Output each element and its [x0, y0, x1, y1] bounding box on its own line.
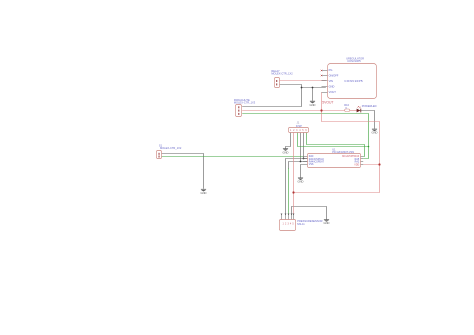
svg-text:123456: 123456 — [290, 130, 308, 132]
svg-text:CONV10P5: CONV10P5 — [344, 79, 363, 83]
svg-text:GND: GND — [372, 131, 378, 135]
svg-text:1k: 1k — [345, 107, 347, 109]
svg-text:5VOUT: 5VOUT — [322, 100, 333, 104]
svg-text:GND: GND — [324, 221, 330, 225]
svg-text:PIC12F1840T-I/SN: PIC12F1840T-I/SN — [332, 150, 354, 154]
svg-text:GND: GND — [283, 150, 289, 154]
svg-text:MCLR/VPP/RA3: MCLR/VPP/RA3 — [342, 155, 360, 158]
svg-text:RA1/ICSPCLK: RA1/ICSPCLK — [309, 158, 325, 161]
svg-text:VIN: VIN — [329, 79, 333, 83]
svg-text:CONV10P5: CONV10P5 — [347, 59, 361, 63]
svg-text:RA4/ICSPDAT: RA4/ICSPDAT — [309, 160, 325, 163]
svg-text:MOLEX-CTR_1X2: MOLEX-CTR_1X2 — [160, 146, 182, 150]
svg-text:MOLEX-CTR_1X3: MOLEX-CTR_1X3 — [234, 100, 256, 104]
svg-text:ON/OFF: ON/OFF — [329, 74, 339, 78]
svg-text:MOLEX-CTR_1X2: MOLEX-CTR_1X2 — [271, 71, 293, 75]
svg-text:RA0: RA0 — [309, 155, 314, 158]
svg-text:GND: GND — [298, 180, 304, 184]
svg-text:RA5: RA5 — [355, 158, 360, 161]
svg-text:12345: 12345 — [283, 223, 295, 225]
svg-text:VDD: VDD — [354, 165, 359, 167]
svg-text:RA2: RA2 — [355, 160, 360, 163]
svg-text:GND: GND — [329, 84, 335, 88]
svg-text:VSS: VSS — [309, 164, 314, 166]
svg-text:GND: GND — [310, 103, 316, 107]
svg-text:VOUT: VOUT — [329, 90, 337, 94]
svg-text:MS-11: MS-11 — [297, 222, 305, 226]
svg-text:GND: GND — [201, 191, 207, 195]
svg-text:POWERLED: POWERLED — [362, 104, 377, 108]
svg-text:PG: PG — [329, 68, 333, 72]
